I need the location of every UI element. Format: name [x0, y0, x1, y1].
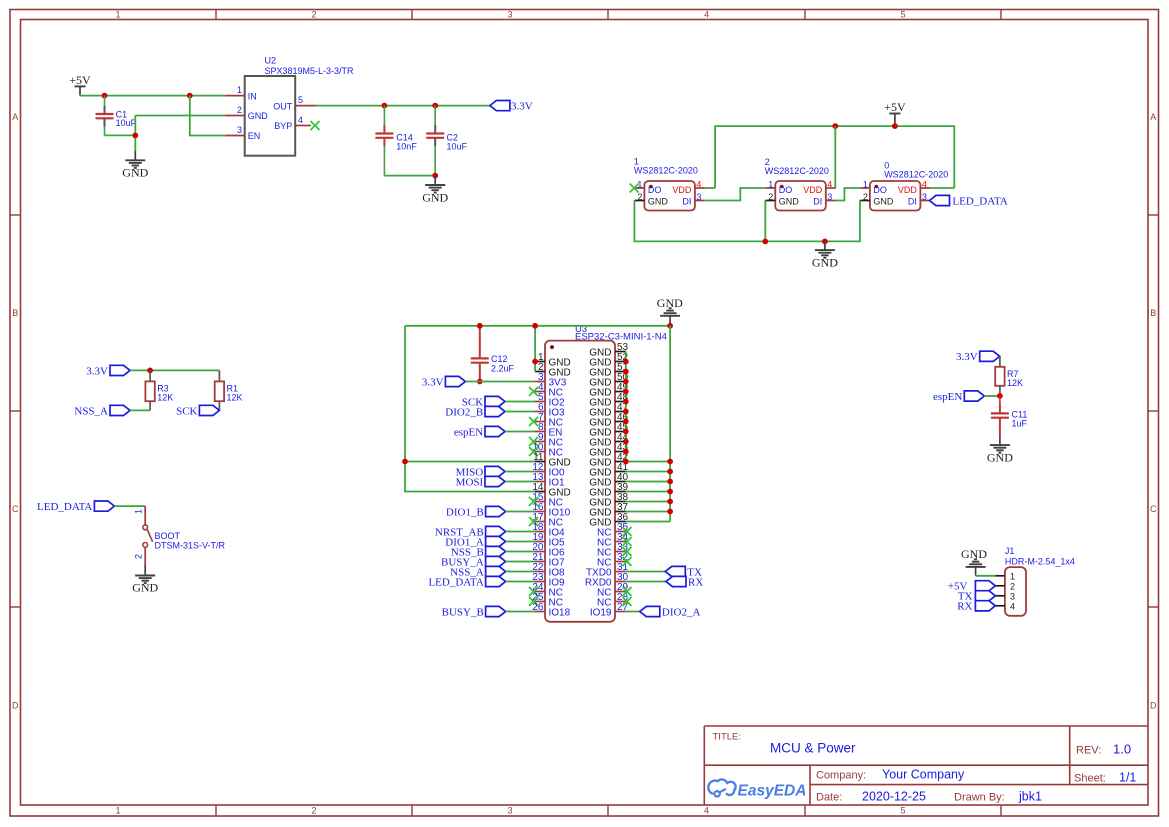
svg-text:+5V: +5V: [884, 100, 906, 114]
capacitor C14 10nF: [375, 106, 417, 176]
U3 pin 14 GND: [532, 482, 570, 498]
wire LED2 VDD up to rail: [834, 126, 836, 188]
svg-text:J1: J1: [1005, 546, 1015, 556]
svg-text:10uF: 10uF: [116, 118, 137, 128]
net flag NSS_A (U3 pin 22): [450, 566, 505, 578]
svg-text:5: 5: [298, 95, 303, 105]
svg-text:VDD: VDD: [803, 185, 823, 195]
svg-text:D: D: [12, 701, 19, 711]
wire +5V rail to U2 pin1: [80, 95, 225, 97]
+5V power symbol (LED rail): [884, 100, 906, 126]
resistor R3 12K: [145, 370, 173, 410]
net flag +5V (J1 pin2): [948, 581, 996, 593]
wire GND to J1 pin 1: [976, 575, 996, 577]
svg-text:espEN: espEN: [454, 426, 483, 438]
svg-text:A: A: [1150, 112, 1156, 122]
node pin 49 tie: [623, 389, 629, 395]
no-connect X on LED1 DO: [630, 184, 639, 193]
node junction pin11: [402, 459, 408, 465]
U3 pin 24 NC: [529, 582, 563, 598]
svg-text:RX: RX: [957, 601, 972, 613]
svg-text:GND: GND: [589, 397, 611, 408]
svg-text:WS2812C-2020: WS2812C-2020: [634, 166, 698, 176]
net flag LED_DATA (U3 pin 23): [428, 576, 505, 588]
node pin 51 tie: [623, 369, 629, 375]
svg-text:GND: GND: [589, 497, 611, 508]
svg-text:Drawn By:: Drawn By:: [954, 792, 1005, 804]
U3 pin 47 GND: [589, 402, 628, 418]
resistor R7 12K: [995, 356, 1023, 396]
svg-text:3.3V: 3.3V: [86, 365, 108, 377]
LED WS2812C-2020 #0: [860, 161, 948, 211]
net flag RX (U3 RXD0): [666, 576, 703, 588]
U3 pin 18 IO4: [532, 522, 565, 538]
svg-text:GND: GND: [248, 111, 269, 121]
node junction espEN/R7/C11: [997, 393, 1003, 399]
node pin 47 tie: [623, 409, 629, 415]
svg-text:NC: NC: [597, 527, 611, 538]
svg-text:4: 4: [696, 179, 701, 189]
svg-text:2: 2: [237, 105, 242, 115]
net flag NSS_B (U3 pin 20): [451, 546, 506, 558]
svg-text:VDD: VDD: [672, 185, 692, 195]
net flag LED_DATA (to BOOT switch): [37, 501, 114, 513]
svg-text:IN: IN: [248, 91, 257, 101]
wire pin 23: [506, 581, 535, 583]
wire pin 18: [506, 531, 535, 533]
wire IO18: [506, 611, 535, 613]
U3 pin 44 GND: [589, 432, 628, 448]
svg-text:4: 4: [704, 806, 709, 816]
svg-text:NC: NC: [597, 547, 611, 558]
node pin 46 tie: [623, 419, 629, 425]
svg-text:B: B: [1150, 308, 1156, 318]
U3 pin 43 GND: [589, 442, 628, 458]
net flag MISO (U3 IO0): [456, 466, 505, 478]
svg-text:GND: GND: [589, 427, 611, 438]
svg-text:EasyEDA: EasyEDA: [738, 783, 807, 800]
wire pin11 GND: [405, 461, 535, 463]
svg-text:DI: DI: [908, 197, 917, 207]
wire IO1: [505, 481, 535, 483]
svg-text:C: C: [12, 504, 19, 514]
wire pin 20: [506, 551, 535, 553]
net flag 3.3V (pullup rail): [86, 365, 130, 377]
svg-text:SPX3819M5-L-3-3/TR: SPX3819M5-L-3-3/TR: [265, 66, 355, 76]
net flag NRST_AB (U3 pin 18): [435, 526, 506, 538]
node junction C2: [432, 103, 438, 109]
+5V power symbol (regulator input): [69, 73, 91, 96]
net flag MOSI (U3 IO1): [456, 476, 505, 488]
wire pin 19: [506, 541, 535, 543]
svg-text:LED_DATA: LED_DATA: [952, 196, 1007, 208]
capacitor C2 10uF: [426, 106, 467, 176]
U3 pin 36 GND: [589, 512, 628, 528]
svg-text:2: 2: [1010, 581, 1015, 591]
ground symbol (J1 pin1): [961, 547, 987, 576]
svg-text:12K: 12K: [157, 393, 173, 403]
svg-text:10nF: 10nF: [396, 142, 417, 152]
svg-text:1: 1: [115, 10, 120, 20]
svg-text:Your Company: Your Company: [882, 768, 965, 782]
net flag BUSY_B (U3 IO18): [442, 606, 506, 618]
node junction top GND: [667, 323, 673, 329]
U3 pin 32 NC: [597, 552, 631, 568]
svg-text:C: C: [1150, 504, 1157, 514]
U3 pin 38 GND: [589, 492, 628, 508]
wire LED_DATA to switch pin 1: [114, 505, 145, 507]
svg-text:DO: DO: [873, 185, 887, 195]
capacitor C11 1uF: [991, 396, 1028, 435]
svg-text:OUT: OUT: [273, 101, 293, 111]
node junction +5V stem: [892, 123, 898, 129]
title block: [704, 726, 1148, 805]
U3 pin 15 NC: [529, 492, 563, 508]
svg-text:LED_DATA: LED_DATA: [428, 576, 483, 588]
svg-text:LED_DATA: LED_DATA: [37, 501, 92, 513]
svg-text:1uF: 1uF: [1012, 419, 1028, 429]
node junction GND stem: [822, 239, 828, 245]
U3 pin 5 IO2: [535, 392, 565, 408]
net flag espEN (U3 EN): [454, 426, 505, 438]
svg-text:GND: GND: [589, 437, 611, 448]
svg-text:12K: 12K: [1007, 378, 1023, 388]
node pin 44 tie: [623, 439, 629, 445]
svg-text:1: 1: [134, 509, 144, 514]
node pin 43 tie: [623, 449, 629, 455]
svg-text:espEN: espEN: [933, 391, 962, 403]
U3 pin 40 GND: [589, 472, 628, 488]
wire 3.3V top rail: [405, 325, 670, 327]
node pin 45 tie: [623, 429, 629, 435]
U3 pin 33 NC: [597, 542, 631, 558]
node pin 52 tie: [623, 359, 629, 365]
node junction LED2 GND: [762, 239, 768, 245]
wire RXD0: [626, 581, 666, 583]
svg-text:2: 2: [134, 554, 144, 559]
svg-text:GND: GND: [422, 191, 448, 205]
svg-text:2: 2: [863, 192, 868, 202]
U3 pin 53 GND: [589, 342, 628, 358]
svg-text:NSS_A: NSS_A: [74, 405, 108, 417]
U3 pin 12 IO0: [532, 462, 565, 478]
U3 pin 4 NC: [529, 382, 563, 398]
U3 pin 3 3V3: [535, 372, 567, 388]
svg-text:RXD0: RXD0: [585, 577, 612, 588]
svg-text:NC: NC: [597, 597, 611, 608]
wire TXD0: [626, 571, 666, 573]
U3 pin 29 NC: [597, 582, 631, 598]
wire C1 bottom to GND drop: [105, 134, 136, 136]
svg-text:GND: GND: [589, 357, 611, 368]
wire GND bus vertical: [669, 326, 671, 522]
svg-text:1: 1: [237, 85, 242, 95]
node junction C14: [382, 103, 388, 109]
wire EN: [505, 431, 535, 433]
U3 pin 46 GND: [589, 412, 628, 428]
U3 pin 45 GND: [589, 422, 628, 438]
U3 pin 9 NC: [529, 432, 563, 448]
ground symbol (LED rail): [812, 241, 838, 269]
wire IO2: [505, 401, 535, 403]
net flag BUSY_A (U3 pin 21): [441, 556, 506, 568]
svg-text:GND: GND: [589, 377, 611, 388]
wire IO3: [505, 411, 535, 413]
U3 pin 2 GND: [535, 362, 571, 378]
U3 pin 8 EN: [535, 422, 562, 438]
svg-text:GND: GND: [589, 387, 611, 398]
svg-text:3: 3: [507, 806, 512, 816]
svg-text:NC: NC: [597, 587, 611, 598]
svg-text:2: 2: [311, 10, 316, 20]
net flag 3.3V (U3 3V3): [422, 376, 466, 388]
U3 pin 11 GND: [533, 452, 571, 468]
U3 pin 23 IO9: [532, 572, 565, 588]
node junction R3 top: [147, 368, 153, 374]
svg-text:DI: DI: [813, 197, 822, 207]
wire espEN to R7/C11: [984, 395, 1000, 397]
svg-text:4: 4: [827, 179, 832, 189]
node junction LED2 VDD: [832, 123, 838, 129]
svg-text:3.3V: 3.3V: [956, 351, 978, 363]
wire LED1 VDD up to rail: [705, 187, 715, 189]
svg-text:IO19: IO19: [590, 607, 612, 618]
svg-text:GND: GND: [779, 197, 800, 207]
net flag NSS_A: [74, 405, 130, 417]
net flag 3.3V (regulator output): [490, 101, 533, 113]
svg-text:53: 53: [617, 342, 629, 353]
EasyEDA logo: [708, 779, 806, 799]
node pin 48 tie: [623, 399, 629, 405]
U3 pin 26 IO18: [532, 602, 570, 618]
wire U2 GND pin to ground: [135, 115, 225, 117]
wire +5V LED rail: [715, 126, 954, 188]
svg-text:NC: NC: [597, 557, 611, 568]
svg-text:Sheet:: Sheet:: [1074, 773, 1106, 785]
svg-text:BYP: BYP: [274, 121, 292, 131]
node junction C2/GND: [432, 173, 438, 179]
node junction C12 top: [477, 323, 483, 329]
svg-text:GND: GND: [589, 517, 611, 528]
svg-text:1: 1: [863, 179, 868, 189]
wire NSS_A to R3 bottom: [130, 409, 150, 411]
U3 pin 37 GND: [589, 502, 628, 518]
svg-text:1/1: 1/1: [1119, 771, 1136, 785]
wire pin 40 to bus: [626, 481, 670, 483]
node junction C1/GND: [132, 133, 138, 139]
svg-text:1: 1: [768, 179, 773, 189]
svg-text:+5V: +5V: [69, 73, 91, 87]
net flag DIO2_B (U3 IO3): [445, 406, 505, 418]
U3 pin 19 IO5: [532, 532, 565, 548]
U3 pin 52 GND: [589, 352, 628, 368]
capacitor C1 10uF: [96, 96, 137, 136]
svg-text:2: 2: [311, 806, 316, 816]
svg-text:GND: GND: [589, 477, 611, 488]
net flag espEN: [933, 391, 984, 403]
net flag DIO1_A (U3 pin 19): [445, 536, 505, 548]
U3 pin 10 NC: [529, 442, 563, 458]
U3 pin 51 GND: [589, 362, 628, 378]
svg-text:REV:: REV:: [1076, 745, 1101, 757]
wire C14 bottom to C2 bottom: [384, 175, 435, 177]
node pin 50 tie: [623, 379, 629, 385]
U3 pin 20 IO6: [532, 542, 565, 558]
svg-text:4: 4: [298, 115, 303, 125]
wire EN to +5V: [190, 96, 225, 136]
U3 pin 6 IO3: [535, 402, 565, 418]
svg-text:U2: U2: [265, 56, 277, 66]
node junction rail drop: [532, 323, 538, 329]
U3 pin 16 IO10: [532, 502, 570, 518]
U3 pin 7 NC: [529, 412, 563, 428]
svg-text:GND: GND: [987, 451, 1013, 465]
wire pin 37 to bus: [626, 511, 670, 513]
net flag TX (J1 pin3): [958, 591, 996, 603]
wire pins 53-42 vertical tie: [625, 352, 627, 462]
wire IO10: [506, 511, 535, 513]
ground symbol (U3 top): [657, 296, 683, 326]
svg-text:GND: GND: [132, 581, 158, 595]
svg-text:B: B: [12, 308, 18, 318]
wire IO19: [626, 611, 640, 613]
svg-text:TXD0: TXD0: [586, 567, 612, 578]
MCU U3 ESP32-C3-MINI-1-N4: [545, 324, 667, 622]
svg-text:VDD: VDD: [898, 185, 918, 195]
wire pin 22: [506, 571, 535, 573]
svg-text:jbk1: jbk1: [1018, 790, 1042, 804]
svg-text:GND: GND: [589, 417, 611, 428]
connector J1 HDR-M-2.54_1x4: [995, 546, 1075, 616]
svg-text:GND: GND: [589, 367, 611, 378]
U3 pin 42 GND: [589, 452, 628, 468]
svg-text:GND: GND: [812, 256, 838, 270]
U3 pin 50 GND: [589, 372, 628, 388]
wire pin42 to bus: [626, 461, 670, 463]
svg-text:3.3V: 3.3V: [422, 376, 444, 388]
wire pin 39 to bus: [626, 491, 670, 493]
U3 pin 21 IO7: [532, 552, 565, 568]
svg-text:BUSY_B: BUSY_B: [442, 606, 484, 618]
svg-text:GND: GND: [589, 487, 611, 498]
svg-text:GND: GND: [589, 457, 611, 468]
wire LED2 DI to LED0 DO: [835, 188, 860, 201]
net flag 3.3V (espEN pullup): [956, 351, 1000, 363]
svg-text:3.3V: 3.3V: [511, 101, 533, 113]
svg-text:DI: DI: [682, 197, 691, 207]
voltage regulator U2 SPX3819M5-L-3-3/TR: [225, 56, 354, 156]
ground symbol (under C1): [122, 151, 148, 180]
svg-text:1.0: 1.0: [1113, 742, 1131, 757]
wire IO0: [505, 471, 535, 473]
LED U? WS2812C-2020 #1: [634, 157, 705, 211]
wire LED0 VDD to rail: [930, 187, 954, 189]
node junction C12 bottom: [477, 379, 483, 385]
svg-text:DTSM-31S-V-T/R: DTSM-31S-V-T/R: [155, 540, 226, 550]
net flag DIO1_B (U3 IO10): [446, 506, 506, 518]
svg-text:WS2812C-2020: WS2812C-2020: [765, 166, 829, 176]
svg-text:3: 3: [1010, 591, 1015, 601]
svg-text:DIO2_A: DIO2_A: [662, 606, 701, 618]
U3 pin 39 GND: [589, 482, 628, 498]
svg-text:A: A: [12, 112, 18, 122]
svg-text:TITLE:: TITLE:: [713, 732, 742, 743]
svg-text:GND: GND: [589, 407, 611, 418]
wire LED2 GND drop: [764, 201, 766, 242]
wire LED1 DI to LED2 DO: [705, 188, 765, 201]
U3 pin 30 RXD0: [585, 572, 629, 588]
U3 pin 25 NC: [529, 592, 563, 608]
ground symbol (C11): [987, 435, 1013, 464]
switch BOOT DTSM-31S-V-T/R: [134, 506, 226, 564]
wire pins 1-2 drop: [534, 326, 536, 372]
svg-text:MOSI: MOSI: [456, 476, 484, 488]
wire left GND rail: [405, 326, 535, 492]
svg-text:DO: DO: [648, 185, 662, 195]
svg-text:Date:: Date:: [816, 792, 842, 804]
LED WS2812C-2020 #2: [765, 157, 836, 211]
svg-text:GND: GND: [589, 447, 611, 458]
U3 pin 13 IO1: [532, 472, 565, 488]
wire LED GND rail: [634, 201, 860, 242]
svg-text:3: 3: [237, 125, 242, 135]
node junction EN branch: [187, 93, 193, 99]
svg-text:4: 4: [704, 10, 709, 20]
svg-text:DIO1_B: DIO1_B: [446, 506, 484, 518]
svg-text:3: 3: [922, 192, 927, 202]
wire pin 21: [506, 561, 535, 563]
svg-text:2020-12-25: 2020-12-25: [862, 790, 926, 804]
U3 pin 17 NC: [529, 512, 563, 528]
svg-text:2: 2: [768, 192, 773, 202]
resistor R1 12K: [215, 370, 243, 410]
svg-text:3: 3: [827, 192, 832, 202]
capacitor C12 2.2uF: [471, 326, 515, 382]
node junction pin1: [532, 359, 538, 365]
svg-text:5: 5: [900, 806, 905, 816]
svg-text:1: 1: [115, 806, 120, 816]
svg-text:WS2812C-2020: WS2812C-2020: [884, 170, 948, 180]
wire pin36 to bus corner: [626, 521, 670, 523]
svg-text:5: 5: [900, 10, 905, 20]
svg-text:GND: GND: [648, 197, 669, 207]
net flag LED_DATA (LED0 DI): [930, 195, 1008, 207]
svg-text:GND: GND: [589, 467, 611, 478]
U3 pin 1 GND: [535, 352, 571, 368]
wire pin 41 to bus: [626, 471, 670, 473]
ground symbol (under C2): [422, 176, 448, 205]
svg-text:12K: 12K: [227, 393, 243, 403]
svg-text:4: 4: [922, 179, 927, 189]
svg-text:HDR-M-2.54_1x4: HDR-M-2.54_1x4: [1005, 556, 1075, 566]
svg-text:3: 3: [507, 10, 512, 20]
svg-text:D: D: [1150, 701, 1157, 711]
wire OUT to 3.3V: [316, 105, 490, 107]
svg-text:EN: EN: [248, 131, 261, 141]
U3 pin 31 TXD0: [586, 562, 629, 578]
wire 3V3: [465, 381, 535, 383]
svg-text:RX: RX: [688, 576, 703, 588]
net flag SCK (U3 IO2): [462, 396, 505, 408]
svg-text:NC: NC: [597, 537, 611, 548]
U3 pin 27 IO19: [590, 602, 629, 618]
svg-text:1: 1: [1010, 571, 1015, 581]
wire 3.3V to R3/R1: [130, 369, 219, 371]
svg-text:4: 4: [1010, 601, 1015, 611]
ground symbol (BOOT): [132, 564, 158, 594]
U3 pin 35 NC: [597, 522, 631, 538]
net flag DIO2_A (U3 IO19): [640, 606, 701, 618]
